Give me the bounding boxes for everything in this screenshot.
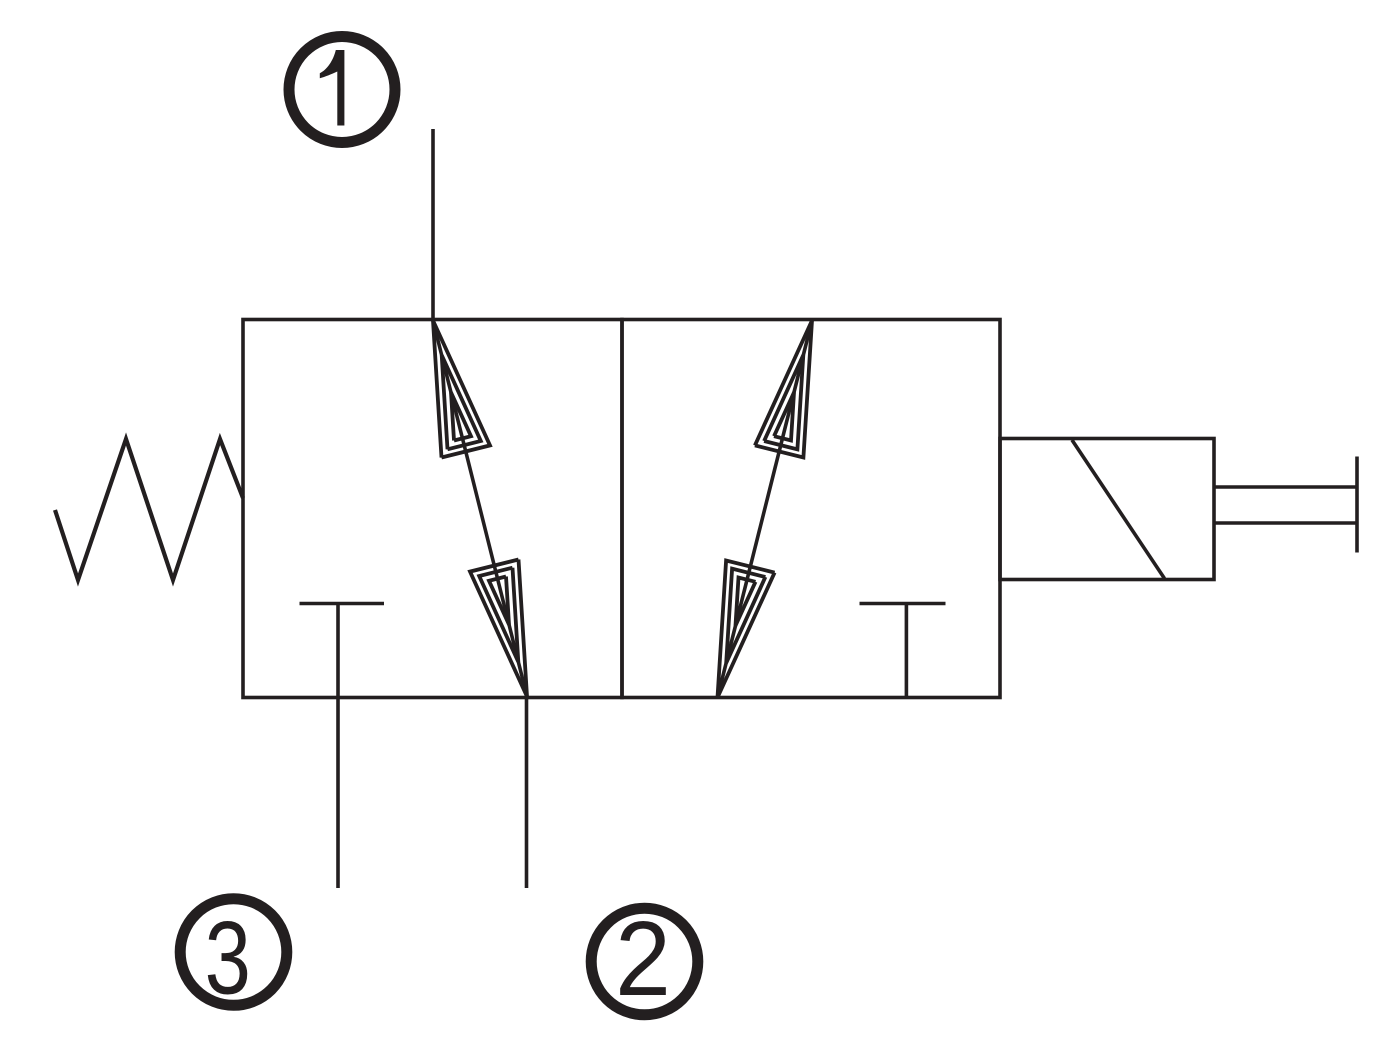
flow arrow left position shaft <box>433 321 527 697</box>
wire port 3 stem <box>336 604 340 889</box>
arrowhead right top <box>755 321 812 458</box>
solenoid diagonal <box>1072 440 1165 579</box>
blocked port symbol left (T) <box>300 602 385 606</box>
spring return <box>55 439 243 580</box>
manual override plunger end cap <box>1355 457 1359 553</box>
port number 1 <box>320 50 345 126</box>
arrowhead left bottom <box>470 560 527 697</box>
port label circle 1 <box>289 37 395 143</box>
solenoid coil box <box>1000 439 1214 580</box>
svg-text:3: 3 <box>205 900 251 1016</box>
wire port 1 line <box>431 129 435 321</box>
arrowhead left top <box>433 321 490 458</box>
valve body right square <box>622 320 1000 698</box>
blocked port right stem <box>905 604 909 698</box>
arrowhead right bottom <box>718 561 775 698</box>
port label circle 3 <box>180 899 287 1006</box>
blocked port symbol right (T) <box>860 602 946 606</box>
svg-text:2: 2 <box>615 900 671 1018</box>
valve body left square <box>243 320 622 698</box>
flow arrow right position shaft <box>718 321 813 698</box>
wire port 2 line <box>525 698 529 889</box>
manual override plunger bottom rod <box>1214 521 1357 525</box>
manual override plunger top rod <box>1214 485 1357 489</box>
port label circle 2 <box>591 908 698 1015</box>
